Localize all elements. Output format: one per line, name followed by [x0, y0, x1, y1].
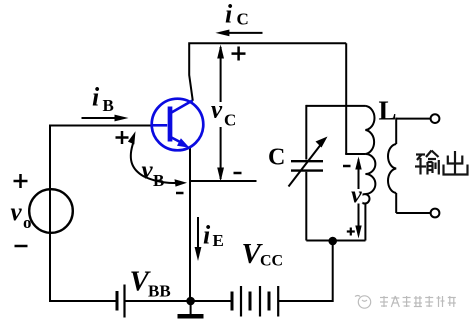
svg-text:C: C [224, 111, 236, 130]
svg-text:o: o [23, 213, 32, 232]
svg-text:v: v [351, 183, 362, 209]
svg-text:B: B [153, 171, 164, 190]
svg-text:v: v [211, 97, 223, 124]
svg-text:C: C [268, 145, 285, 171]
svg-text:CC: CC [260, 253, 283, 270]
svg-text:v: v [11, 199, 23, 226]
svg-text:i: i [92, 83, 100, 112]
svg-text:E: E [213, 231, 224, 250]
svg-text:v: v [142, 157, 154, 184]
svg-text:B: B [103, 96, 114, 115]
svg-text:C: C [237, 10, 249, 29]
svg-text:i: i [203, 221, 211, 250]
svg-text:i: i [225, 0, 233, 29]
svg-text:BB: BB [148, 282, 171, 301]
svg-text:L: L [379, 96, 397, 126]
